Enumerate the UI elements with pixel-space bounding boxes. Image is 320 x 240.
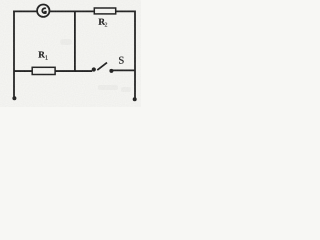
- resistor R2: [94, 8, 115, 14]
- wire right vertical: [134, 11, 136, 98]
- paper background: [0, 0, 141, 107]
- wire middle horizontal left (R1 branch): [14, 70, 92, 72]
- faint scan smudges (decorative): [60, 39, 131, 92]
- wire top horizontal: [13, 10, 135, 12]
- galvanometer G: [37, 5, 49, 17]
- switch contact dot right: [109, 69, 113, 73]
- paper noise overlay (decorative): [0, 0, 141, 107]
- resistor R1: [32, 67, 55, 74]
- terminal dot bottom-right: [133, 97, 137, 101]
- wire left vertical: [13, 11, 15, 97]
- terminal dot bottom-left: [12, 96, 16, 100]
- switch contact dot left: [92, 67, 96, 71]
- wire switch to right vertical: [110, 69, 136, 71]
- wire middle vertical: [74, 11, 76, 71]
- switch blade: [97, 63, 107, 71]
